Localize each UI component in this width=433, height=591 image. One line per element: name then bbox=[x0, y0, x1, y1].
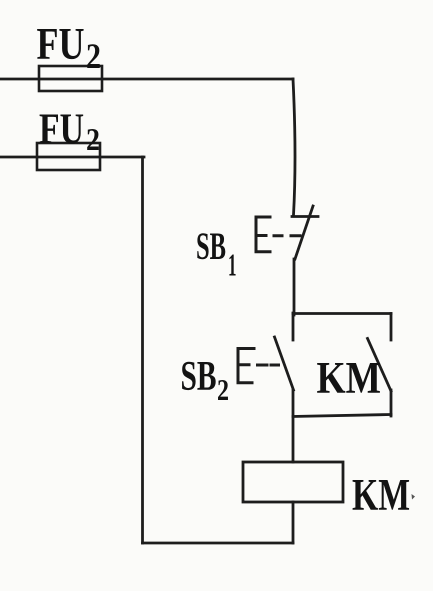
svg-text:FU: FU bbox=[39, 106, 84, 153]
svg-text:SB: SB bbox=[181, 354, 217, 400]
wire from SB1 down to parallel branch node bbox=[293, 259, 296, 315]
label FU2 (upper) bbox=[37, 19, 102, 76]
svg-text:SB: SB bbox=[196, 225, 226, 268]
svg-text:2: 2 bbox=[86, 36, 101, 76]
label FU2 (lower) bbox=[39, 106, 100, 157]
scan mark after coil label bbox=[412, 494, 416, 500]
wire SB2 lower terminal down to coil bbox=[292, 390, 295, 462]
fuse FU2 (upper) bbox=[39, 66, 102, 91]
pushbutton SB1 actuator dashed link bbox=[274, 234, 300, 237]
wire left vertical return bbox=[141, 157, 144, 543]
wire KM branch upper terminal bbox=[390, 314, 393, 341]
wire KM branch lower terminal bbox=[390, 390, 393, 416]
pushbutton SB2 actuator E symbol bbox=[238, 349, 254, 383]
pushbutton SB1 actuator E symbol bbox=[256, 217, 270, 252]
wire bottom rail bbox=[143, 542, 294, 545]
wire SB2 upper terminal bbox=[292, 313, 295, 340]
fuse FU2 (lower) bbox=[37, 143, 100, 170]
wire top rail L1 bbox=[0, 78, 293, 81]
svg-text:1: 1 bbox=[228, 247, 237, 283]
pushbutton SB1 (NC stop button) fixed contact bar bbox=[292, 215, 318, 218]
svg-text:FU: FU bbox=[37, 19, 85, 69]
wire parallel branch bottom rail bbox=[293, 415, 391, 417]
coil KM (contactor coil) bbox=[243, 462, 343, 502]
label KM (coil) bbox=[352, 470, 410, 520]
wire parallel branch top rail bbox=[293, 312, 391, 315]
svg-text:2: 2 bbox=[217, 372, 229, 407]
label KM (auxiliary contact) bbox=[317, 353, 382, 403]
wire below coil bbox=[292, 502, 295, 543]
label SB1 bbox=[196, 225, 237, 283]
label SB2 bbox=[181, 354, 230, 407]
contact KM (NO auxiliary contact) moving diagonal bbox=[368, 339, 392, 392]
svg-text:2: 2 bbox=[86, 121, 100, 157]
pushbutton SB1 moving contact diagonal bbox=[295, 206, 313, 259]
pushbutton SB2 actuator dashed link bbox=[258, 364, 279, 367]
svg-text:KM: KM bbox=[317, 353, 382, 403]
svg-text:KM: KM bbox=[352, 470, 410, 520]
wire right vertical from top rail down to SB1 bbox=[293, 79, 295, 215]
pushbutton SB2 (NO start button) moving contact diagonal bbox=[275, 337, 294, 390]
wire second rail L2 bbox=[0, 156, 144, 159]
